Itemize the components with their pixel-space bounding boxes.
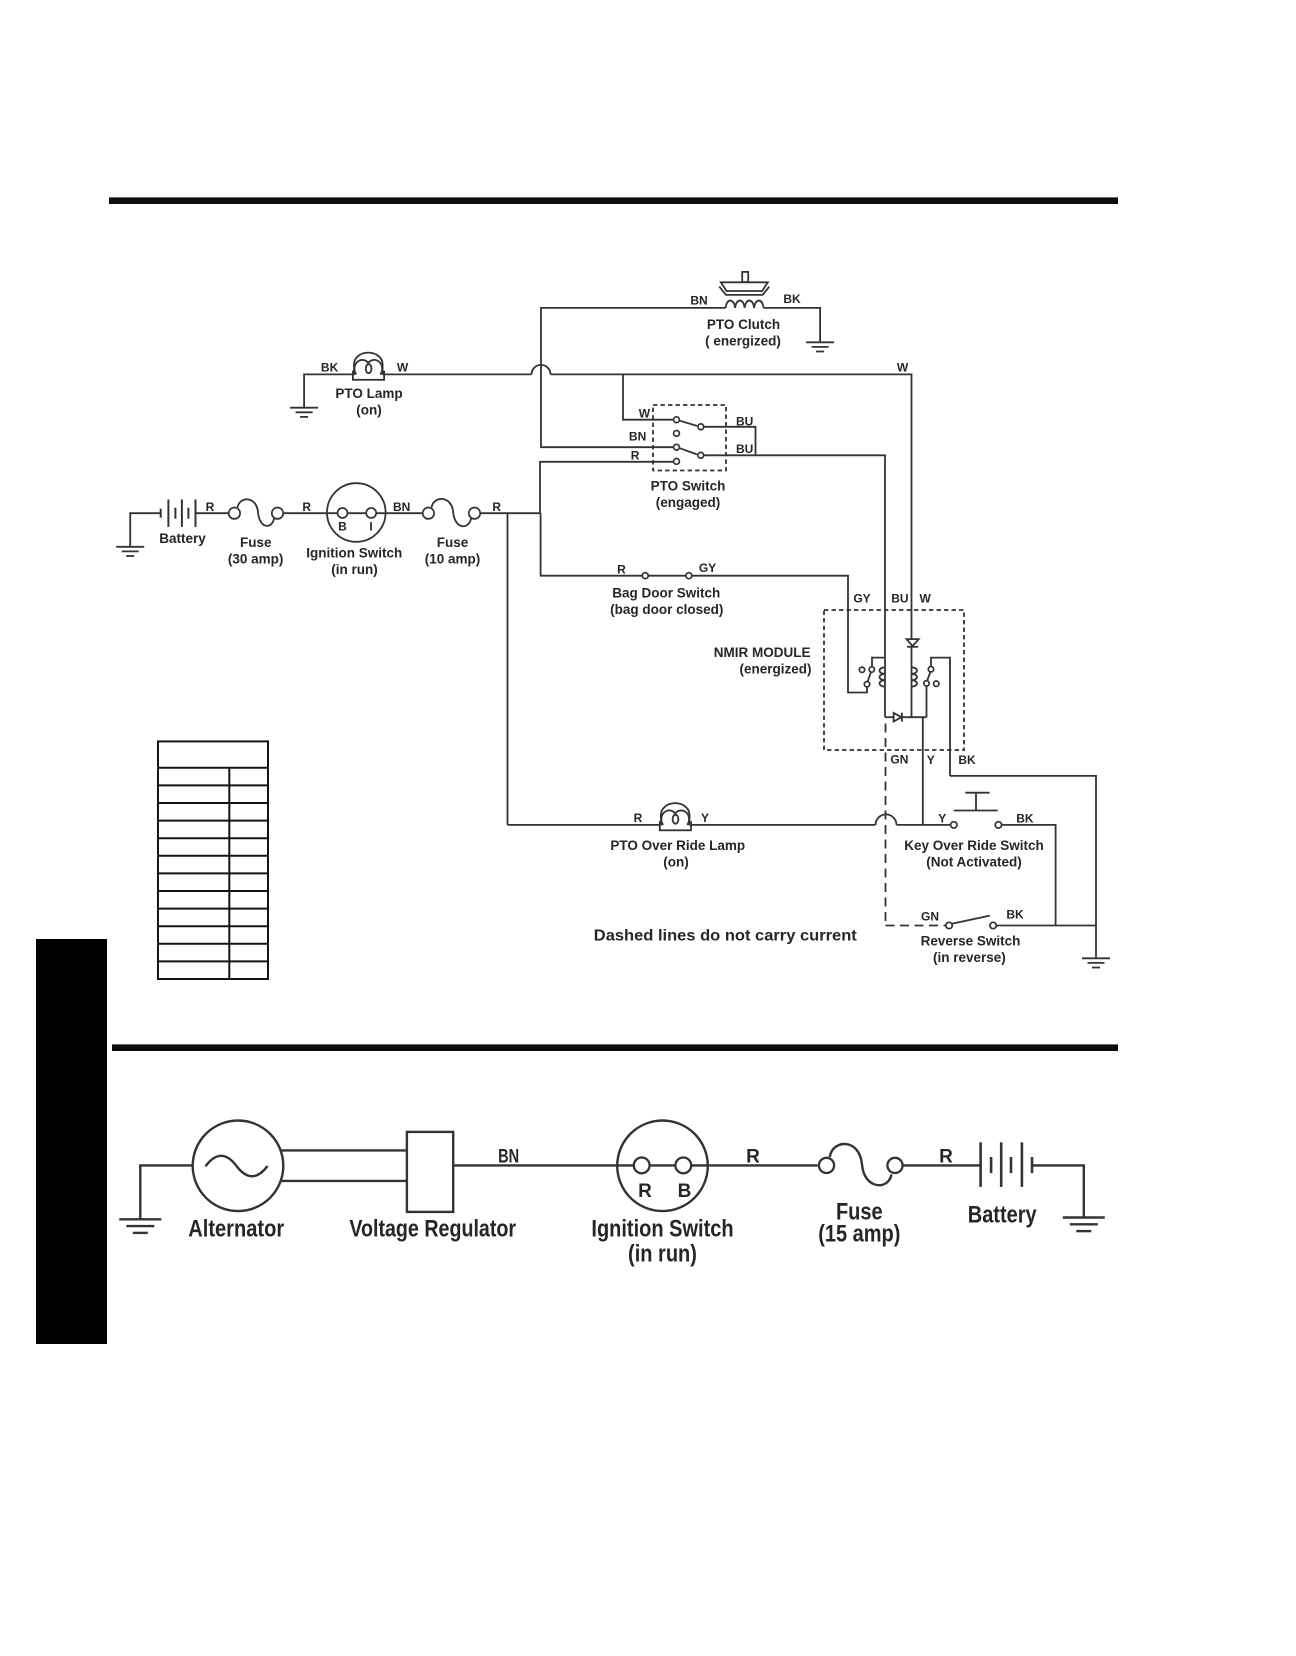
relay K1 arm bbox=[868, 672, 871, 681]
wire Y to key switch bbox=[691, 824, 876, 826]
relay K1 coil bbox=[884, 667, 886, 686]
svg-text:R: R bbox=[638, 1181, 652, 1202]
wire relay K2 contact to BK bbox=[931, 658, 950, 776]
relay K2 contacts bbox=[928, 667, 933, 672]
wire battery to ground bbox=[1032, 1165, 1084, 1217]
svg-text:Fuse: Fuse bbox=[240, 535, 272, 550]
wire battery to ground bbox=[130, 513, 161, 547]
svg-text:(15 amp): (15 amp) bbox=[818, 1221, 900, 1248]
svg-text:GN: GN bbox=[890, 753, 908, 767]
svg-text:(Not Activated): (Not Activated) bbox=[926, 855, 1022, 870]
svg-text:( energized): ( energized) bbox=[705, 334, 781, 349]
diode D1 on W line bbox=[907, 639, 919, 667]
wires alternator to regulator bbox=[281, 1149, 407, 1151]
svg-text:BK: BK bbox=[1006, 908, 1024, 922]
svg-text:BK: BK bbox=[1016, 812, 1034, 826]
ignition switch S1 body bbox=[327, 483, 386, 542]
PTO clutch plate symbol bbox=[719, 272, 769, 295]
ignition switch S1 terminals bbox=[338, 508, 348, 518]
svg-text:BK: BK bbox=[321, 361, 339, 375]
svg-text:Bag Door Switch: Bag Door Switch bbox=[612, 586, 720, 601]
PTO switch contacts bbox=[698, 424, 704, 430]
wire BU coil to bottom diode bbox=[884, 687, 886, 718]
svg-text:R: R bbox=[631, 448, 640, 462]
ground at alternator bbox=[119, 1219, 161, 1233]
svg-text:Dashed lines do not carry curr: Dashed lines do not carry current bbox=[594, 928, 858, 945]
svg-text:(30 amp): (30 amp) bbox=[228, 552, 284, 567]
svg-text:Alternator: Alternator bbox=[188, 1216, 284, 1243]
PTO switch terminals bbox=[674, 417, 680, 423]
PTO switch arm lower bbox=[680, 448, 697, 454]
svg-text:PTO Lamp: PTO Lamp bbox=[335, 386, 402, 401]
wire fuse30 to ignition switch bbox=[283, 512, 423, 514]
battery B2 bbox=[981, 1142, 1032, 1187]
wire BK net from module to right ground rail bbox=[950, 776, 1096, 958]
svg-text:GY: GY bbox=[853, 592, 870, 606]
svg-text:(energized): (energized) bbox=[739, 662, 811, 677]
wire alternator to ground bbox=[140, 1165, 193, 1219]
ignition switch S2 body bbox=[617, 1121, 708, 1212]
PTO lamp bbox=[353, 353, 384, 380]
wire W branch down to PTO switch bbox=[623, 374, 673, 419]
PTO clutch coil bbox=[726, 301, 764, 308]
svg-text:R: R bbox=[634, 811, 643, 825]
svg-text:(10 amp): (10 amp) bbox=[425, 552, 481, 567]
wire BK: PTO clutch to ground bbox=[764, 308, 821, 342]
svg-text:Ignition Switch: Ignition Switch bbox=[591, 1216, 733, 1243]
wire BK from reverse switch to ground rail bbox=[996, 925, 1096, 927]
page section tab bbox=[36, 939, 107, 1344]
wire BN net: PTO clutch coil left to PTO switch BN terminal bbox=[541, 308, 726, 447]
svg-text:W: W bbox=[920, 592, 932, 606]
wire W net: lamp to right corner with hop over BN vertical bbox=[384, 373, 532, 375]
svg-text:R: R bbox=[617, 563, 626, 577]
wire BK: PTO lamp to ground bbox=[304, 374, 353, 407]
fuse F2 10 amp bbox=[423, 499, 481, 526]
ground at PTO lamp bbox=[290, 408, 318, 417]
svg-text:(on): (on) bbox=[663, 855, 688, 870]
svg-text:Y: Y bbox=[938, 812, 946, 826]
wire R branch down to override lamp bbox=[507, 513, 509, 825]
relay K1 tap wire bbox=[872, 658, 885, 667]
svg-text:(in reverse): (in reverse) bbox=[933, 950, 1006, 965]
key switch actuator bbox=[954, 793, 998, 811]
svg-text:Fuse: Fuse bbox=[437, 535, 469, 550]
svg-text:I: I bbox=[369, 520, 372, 534]
PTO over ride lamp bbox=[660, 803, 691, 830]
svg-text:BK: BK bbox=[958, 753, 976, 767]
svg-text:GY: GY bbox=[699, 561, 716, 575]
wire BN regulator to ignition and through to fuse bbox=[453, 1164, 817, 1166]
fuse F1 30 amp bbox=[229, 499, 283, 526]
wire W coil to bottom diode wire bbox=[911, 687, 913, 718]
wire to override lamp bbox=[508, 824, 660, 826]
wire fuse10 to junction bbox=[480, 512, 540, 514]
alternator sine wave bbox=[206, 1156, 268, 1176]
alternator G1 body bbox=[193, 1121, 284, 1212]
relay K2 arm bbox=[927, 672, 930, 681]
voltage regulator VR1 box bbox=[407, 1132, 453, 1212]
svg-text:Battery: Battery bbox=[159, 531, 206, 546]
svg-text:Reverse Switch: Reverse Switch bbox=[921, 934, 1021, 949]
ground at battery bbox=[116, 547, 144, 556]
legend table bbox=[158, 741, 268, 979]
svg-text:R: R bbox=[492, 500, 501, 514]
svg-text:Y: Y bbox=[927, 753, 935, 767]
svg-text:GN: GN bbox=[921, 910, 939, 924]
svg-text:(engaged): (engaged) bbox=[656, 495, 721, 510]
dashed GN line to reverse switch bbox=[886, 925, 946, 927]
svg-text:Y: Y bbox=[701, 811, 709, 825]
wire relay K2 pivot down bbox=[926, 686, 928, 717]
relay K1 contacts bbox=[859, 667, 864, 672]
NMIR module dashed box bbox=[824, 610, 964, 750]
ground at battery right bbox=[1063, 1218, 1105, 1232]
wire W continues to module bbox=[551, 374, 912, 639]
svg-text:BU: BU bbox=[736, 442, 753, 456]
svg-text:R: R bbox=[206, 500, 215, 514]
svg-text:B: B bbox=[338, 520, 347, 534]
relay K2 coil on W line bbox=[911, 667, 913, 686]
bag door switch contacts bbox=[649, 575, 686, 577]
page rule top bbox=[109, 197, 1118, 204]
svg-text:Battery: Battery bbox=[968, 1202, 1037, 1229]
svg-text:R: R bbox=[939, 1147, 953, 1168]
reverse switch contacts bbox=[946, 922, 952, 928]
svg-text:BN: BN bbox=[393, 500, 410, 514]
svg-text:Voltage Regulator: Voltage Regulator bbox=[349, 1216, 516, 1243]
svg-text:BU: BU bbox=[891, 592, 908, 606]
battery B1 bbox=[161, 500, 196, 527]
svg-text:BK: BK bbox=[783, 292, 801, 306]
svg-text:W: W bbox=[397, 361, 409, 375]
wire fuse to battery bbox=[902, 1164, 981, 1166]
svg-text:PTO Switch: PTO Switch bbox=[651, 479, 726, 494]
wire BU net to module bbox=[703, 455, 885, 667]
ground at right rail bbox=[1082, 958, 1110, 967]
diode D2 bottom bbox=[885, 713, 927, 722]
PTO switch arm upper bbox=[680, 421, 697, 426]
wire BK from key switch down bbox=[1002, 825, 1056, 926]
svg-text:R: R bbox=[746, 1147, 760, 1168]
svg-text:(on): (on) bbox=[356, 403, 381, 418]
svg-text:W: W bbox=[639, 407, 651, 421]
svg-text:(bag door closed): (bag door closed) bbox=[610, 602, 723, 617]
wire battery to fuse30 bbox=[196, 512, 229, 514]
ground at PTO clutch bbox=[806, 342, 834, 351]
svg-text:PTO Over Ride Lamp: PTO Over Ride Lamp bbox=[610, 838, 745, 853]
svg-text:Key Over Ride Switch: Key Over Ride Switch bbox=[904, 838, 1044, 853]
fuse F3 15 amp bbox=[819, 1144, 903, 1185]
svg-text:R: R bbox=[302, 500, 311, 514]
dashed GN line in module bbox=[885, 724, 887, 926]
reverse switch arm bbox=[952, 916, 990, 924]
PTO switch dashed box bbox=[653, 405, 726, 471]
wire GY net to module bbox=[692, 576, 867, 693]
svg-text:NMIR MODULE: NMIR MODULE bbox=[714, 645, 811, 660]
ignition switch S2 terminals bbox=[634, 1158, 650, 1174]
svg-text:BN: BN bbox=[690, 294, 707, 308]
svg-text:PTO Clutch: PTO Clutch bbox=[707, 317, 780, 332]
wire hop over GN dashed line bbox=[876, 814, 897, 825]
svg-text:BN: BN bbox=[629, 430, 646, 444]
wire BU upper jumper bbox=[703, 427, 755, 456]
page rule middle bbox=[112, 1044, 1118, 1051]
svg-text:BN: BN bbox=[498, 1147, 519, 1168]
svg-text:W: W bbox=[897, 361, 909, 375]
wire R up to PTO switch R terminal bbox=[540, 462, 673, 513]
key over ride switch contacts bbox=[951, 822, 957, 828]
wire Y net down from module bbox=[922, 717, 924, 825]
svg-text:(in run): (in run) bbox=[628, 1241, 697, 1268]
svg-text:Ignition Switch: Ignition Switch bbox=[306, 546, 402, 561]
wire Y continue to key switch contact bbox=[897, 824, 951, 826]
svg-text:(in run): (in run) bbox=[331, 562, 378, 577]
svg-text:B: B bbox=[678, 1181, 692, 1202]
wire hop over BN wire bbox=[532, 365, 551, 375]
wire R down to bag door switch bbox=[541, 513, 643, 576]
